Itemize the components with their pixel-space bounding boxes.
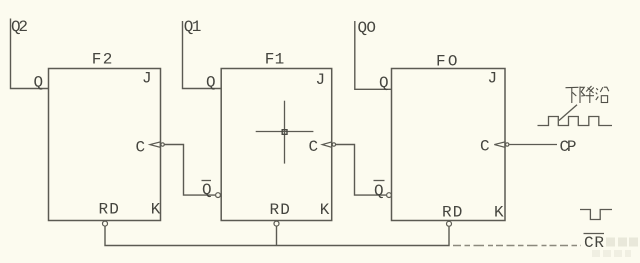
- clock bubble of F1 C pin: [332, 143, 335, 146]
- svg-text:CR: CR: [584, 234, 604, 252]
- character 降: [580, 86, 594, 103]
- svg-text:C: C: [136, 139, 146, 157]
- svg-text:RD: RD: [99, 201, 119, 219]
- label 下降沿 (falling edge) drawn as strokes: [566, 86, 609, 103]
- arrow line to falling edge: [559, 105, 577, 121]
- RD terminal circle of F0: [447, 221, 452, 226]
- svg-text:K: K: [494, 204, 504, 222]
- Qbar bubble of F0: [387, 193, 392, 198]
- svg-text:C: C: [309, 138, 319, 156]
- wire CP input to F0 C: [509, 144, 557, 146]
- character 沿: [596, 87, 609, 102]
- overline of Qbar label F1: [202, 180, 212, 182]
- RD terminal circle of F2: [103, 221, 108, 226]
- wire from F0 Qbar to F1 C: [336, 145, 386, 196]
- wire Q2 from F2 Q pin: [11, 19, 49, 89]
- svg-text:Q: Q: [379, 74, 389, 92]
- wire from F1 RD terminal to bus: [276, 226, 278, 245]
- flip-flop F2 body: [49, 69, 161, 221]
- svg-text:RD: RD: [270, 201, 290, 219]
- svg-text:J: J: [488, 70, 498, 88]
- svg-text:CP: CP: [560, 138, 577, 156]
- CP clock waveform: [538, 117, 613, 126]
- flip-flop F1 body: [221, 69, 332, 221]
- overline of Qbar label F0: [374, 180, 385, 182]
- clock edge triangle of F2 C pin: [150, 142, 160, 147]
- wire Q0 from F0 Q pin: [355, 21, 392, 89]
- wire RD bus dashed segment to CR: [453, 245, 581, 247]
- svg-text:J: J: [142, 70, 152, 88]
- crosshair cursor vertical arm: [284, 101, 286, 164]
- svg-text:Q: Q: [202, 181, 212, 199]
- watermark fragments near CR: [592, 238, 638, 258]
- svg-text:Q: Q: [34, 74, 44, 92]
- svg-text:J: J: [316, 71, 326, 89]
- clock edge triangle of F0 C pin: [494, 142, 505, 147]
- crosshair cursor center dot: [282, 130, 287, 135]
- CR negative pulse waveform: [580, 210, 612, 220]
- wire from F1 Qbar to F2 C: [165, 145, 216, 196]
- svg-text:C: C: [480, 138, 490, 156]
- svg-text:F2: F2: [92, 51, 113, 69]
- flip-flop F0 body: [392, 69, 506, 221]
- RD terminal circle of F1: [274, 221, 279, 226]
- clock edge triangle of F1 C pin: [322, 142, 331, 147]
- svg-text:Q1: Q1: [184, 18, 202, 36]
- svg-text:Q2: Q2: [11, 18, 28, 36]
- clock bubble of F2 C pin: [161, 143, 164, 146]
- svg-text:Q: Q: [206, 74, 216, 92]
- svg-text:QO: QO: [358, 19, 377, 37]
- svg-text:RD: RD: [442, 204, 462, 222]
- overline of CR label: [584, 233, 605, 235]
- clock bubble of F0 C pin: [506, 143, 509, 146]
- character 下: [566, 87, 579, 103]
- wire Q1 from F1 Q pin: [183, 21, 222, 89]
- svg-text:K: K: [320, 201, 330, 219]
- svg-text:K: K: [151, 201, 161, 219]
- wire RD bus solid segment: [105, 226, 449, 245]
- svg-text:F1: F1: [265, 51, 285, 69]
- crosshair cursor horizontal arm: [256, 131, 314, 133]
- Qbar bubble of F1: [216, 193, 221, 198]
- svg-text:Q: Q: [374, 182, 384, 200]
